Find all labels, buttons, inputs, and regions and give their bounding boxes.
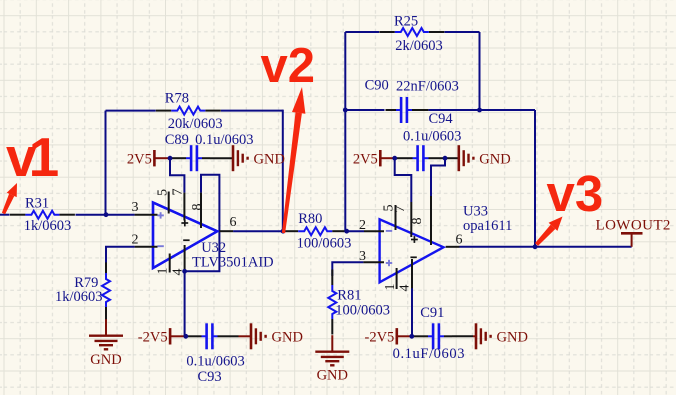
- svg-text:2: 2: [359, 218, 366, 233]
- svg-text:1: 1: [383, 284, 398, 291]
- svg-text:C91: C91: [420, 305, 444, 321]
- svg-text:3: 3: [359, 249, 366, 264]
- svg-text:100/0603: 100/0603: [335, 302, 390, 318]
- svg-text:4: 4: [398, 285, 413, 292]
- svg-text:GND: GND: [497, 330, 528, 346]
- svg-text:v3: v3: [547, 165, 604, 222]
- svg-text:C89: C89: [165, 132, 189, 148]
- svg-text:0.1u/0603: 0.1u/0603: [403, 128, 461, 144]
- svg-text:opa1611: opa1611: [463, 218, 512, 234]
- svg-text:R25: R25: [394, 13, 418, 29]
- svg-text:v1: v1: [6, 126, 59, 188]
- svg-text:20k/0603: 20k/0603: [168, 116, 223, 132]
- svg-text:C94: C94: [429, 111, 454, 127]
- svg-text:8: 8: [410, 218, 425, 225]
- svg-text:7: 7: [171, 189, 186, 196]
- svg-text:GND: GND: [317, 368, 348, 384]
- svg-text:8: 8: [190, 204, 205, 211]
- svg-text:GND: GND: [479, 152, 510, 168]
- svg-text:R80: R80: [298, 211, 322, 227]
- svg-text:0.1uF/0603: 0.1uF/0603: [393, 346, 465, 362]
- svg-text:R31: R31: [25, 196, 49, 212]
- svg-text:C93: C93: [198, 369, 222, 385]
- svg-text:GND: GND: [272, 330, 303, 346]
- svg-text:2V5: 2V5: [127, 152, 152, 168]
- svg-text:2k/0603: 2k/0603: [395, 38, 443, 54]
- svg-text:C90: C90: [365, 78, 389, 94]
- svg-text:R78: R78: [165, 91, 189, 107]
- svg-text:6: 6: [456, 233, 463, 248]
- svg-text:R81: R81: [337, 288, 361, 304]
- svg-text:-2V5: -2V5: [138, 330, 168, 346]
- svg-text:7: 7: [393, 206, 408, 213]
- svg-text:1k/0603: 1k/0603: [24, 218, 72, 234]
- svg-text:2V5: 2V5: [353, 152, 378, 168]
- svg-text:1: 1: [156, 268, 171, 275]
- svg-text:4: 4: [171, 269, 186, 276]
- svg-text:-2V5: -2V5: [364, 330, 394, 346]
- svg-text:LOWOUT2: LOWOUT2: [596, 217, 671, 233]
- svg-text:5: 5: [156, 189, 171, 196]
- svg-text:0.1u/0603: 0.1u/0603: [186, 354, 244, 370]
- svg-text:2: 2: [132, 233, 139, 248]
- svg-text:1k/0603: 1k/0603: [55, 289, 103, 305]
- svg-text:GND: GND: [254, 152, 285, 168]
- svg-text:0.1u/0603: 0.1u/0603: [195, 132, 253, 148]
- svg-text:100/0603: 100/0603: [297, 236, 352, 252]
- svg-text:GND: GND: [90, 352, 121, 368]
- svg-text:v2: v2: [261, 39, 316, 93]
- svg-text:TLV3501AID: TLV3501AID: [192, 255, 274, 271]
- svg-text:3: 3: [132, 200, 139, 215]
- svg-text:22nF/0603: 22nF/0603: [396, 78, 459, 94]
- svg-text:6: 6: [230, 215, 237, 230]
